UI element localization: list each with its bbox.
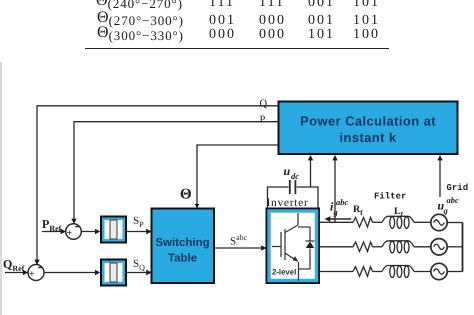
ac source phase b xyxy=(431,239,447,255)
svg-text:Sabc: Sabc xyxy=(230,233,248,248)
svg-text:dc: dc xyxy=(291,171,299,181)
svg-text:Grid: Grid xyxy=(447,183,469,193)
hysteresis comparator SQ xyxy=(100,259,127,287)
label u_dc xyxy=(284,164,300,181)
svg-text:SQ: SQ xyxy=(133,258,145,272)
svg-text:2-level: 2-level xyxy=(272,268,296,277)
arrowhead into P summing node xyxy=(71,219,76,224)
block power calculation xyxy=(279,102,458,155)
table bottom rule xyxy=(85,48,389,50)
inductor Lf phase a xyxy=(382,216,414,228)
svg-text:PRef: PRef xyxy=(42,217,62,233)
capacitor dc-link xyxy=(268,180,319,208)
hysteresis comparator SP xyxy=(100,216,127,244)
table row theta 240-270 xyxy=(96,0,183,12)
table row theta 270-300 xyxy=(97,9,184,29)
svg-text:QRef: QRef xyxy=(3,257,25,273)
svg-text:Switching: Switching xyxy=(155,237,209,249)
phase line a wire xyxy=(320,221,354,223)
svg-text:g: g xyxy=(333,207,339,217)
ac source phase c xyxy=(431,263,447,279)
svg-text:u: u xyxy=(284,164,291,178)
resistor Rf phase c xyxy=(353,267,373,277)
wire hysteresis SP to switching table xyxy=(127,231,147,233)
wire xyxy=(414,221,431,223)
svg-text:instant k: instant k xyxy=(339,130,396,145)
svg-text:+: + xyxy=(29,269,35,280)
svg-text:+: + xyxy=(67,228,73,239)
wire i_g measurement xyxy=(334,158,336,222)
wire xyxy=(414,271,431,273)
wire P summing node to hysteresis SP xyxy=(81,231,96,233)
svg-text:g: g xyxy=(443,206,449,216)
wire hysteresis SQ to switching table xyxy=(127,272,147,274)
inductor Lf phase c xyxy=(382,266,414,278)
block inverter xyxy=(267,209,320,284)
summing node P (P_Ref comparison) xyxy=(66,224,82,240)
wire xyxy=(373,221,383,223)
wire to bus xyxy=(447,271,462,273)
resistor Rf phase a xyxy=(353,218,373,228)
wire u_g measurement xyxy=(439,158,441,197)
label u_g_abc xyxy=(438,195,460,216)
wire to bus xyxy=(447,222,462,224)
arrow i_g direction xyxy=(328,218,351,220)
summing node Q (Q_Ref comparison) xyxy=(28,265,44,281)
wire S_abc (switching table to inverter) xyxy=(214,247,262,249)
grid bus wire xyxy=(462,223,464,272)
wire P feedback (power calc to P summing node) xyxy=(74,122,278,220)
wire u_dc measurement xyxy=(310,158,312,187)
diode freewheeling (inside inverter) xyxy=(298,227,315,269)
svg-text:abc: abc xyxy=(336,197,349,207)
svg-text:Inverter: Inverter xyxy=(267,197,309,209)
wire Q feedback (power calc to Q summing node) xyxy=(37,106,278,260)
transistor IGBT (inside inverter) xyxy=(272,213,299,281)
wire Q summing node to hysteresis SQ xyxy=(44,272,96,274)
wire xyxy=(373,246,383,248)
phase line c wire xyxy=(320,271,354,273)
phase line b wire xyxy=(320,246,354,248)
wire Theta (power calc to switching table) xyxy=(197,145,278,204)
table row theta 300-330 xyxy=(97,24,184,44)
inductor Lf phase b xyxy=(382,241,414,253)
arrowhead into Q summing node xyxy=(34,260,39,265)
label i_g_abc xyxy=(330,197,349,217)
wire Q_Ref input xyxy=(5,272,24,274)
svg-text:Θ: Θ xyxy=(180,187,192,203)
wire xyxy=(414,246,431,248)
svg-text:SP: SP xyxy=(133,215,144,229)
svg-text:Rf: Rf xyxy=(353,204,363,217)
arrowhead into switching table xyxy=(195,204,200,209)
ac source phase a xyxy=(431,214,447,230)
wire to bus xyxy=(447,246,462,248)
resistor Rf phase b xyxy=(353,242,373,252)
svg-text:Filter: Filter xyxy=(374,192,406,202)
page edge shading xyxy=(0,62,2,315)
svg-text:P: P xyxy=(260,114,266,125)
wire xyxy=(373,271,383,273)
svg-text:abc: abc xyxy=(447,195,460,205)
svg-text:Power Calculation at: Power Calculation at xyxy=(300,114,436,129)
svg-text:Table: Table xyxy=(168,253,197,265)
svg-text:Q: Q xyxy=(260,99,268,110)
block switching table xyxy=(152,209,215,284)
wire P_Ref input xyxy=(42,231,62,233)
